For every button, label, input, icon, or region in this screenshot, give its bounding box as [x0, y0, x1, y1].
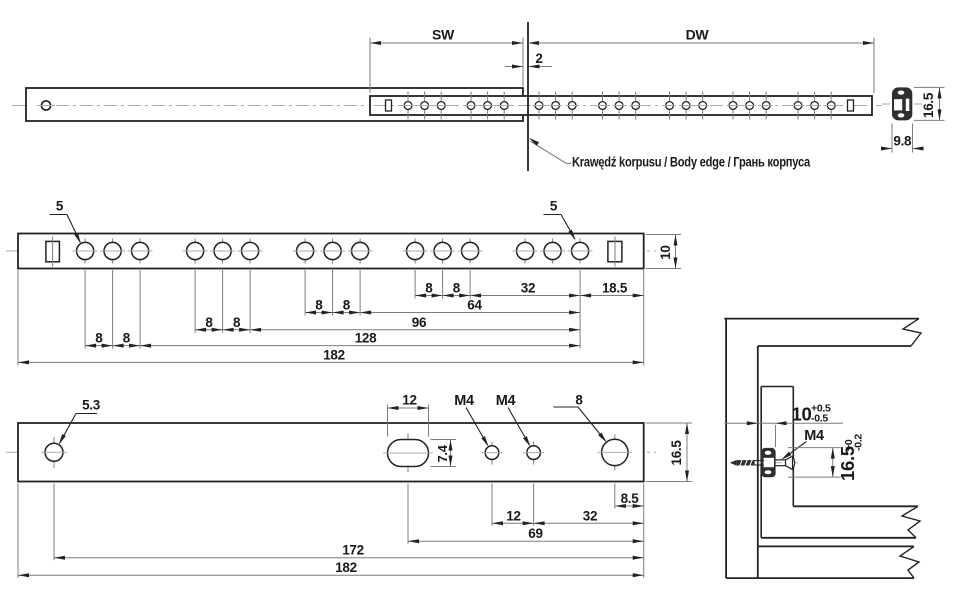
- holes dia 5 on drawer member with tick marks: [84, 239, 86, 264]
- slot at left end of drawer member: [46, 241, 60, 261]
- svg-text:16.5: 16.5: [921, 92, 936, 118]
- svg-text:7.4: 7.4: [435, 444, 450, 462]
- svg-text:128: 128: [355, 331, 377, 346]
- dimension row: 12, 32: [492, 522, 644, 524]
- dimension 16.5 (bar height): [646, 422, 692, 424]
- dimension 9.8 (cross-section width): [891, 124, 893, 153]
- dimension row: 172: [54, 557, 644, 559]
- M4 hole 1 with tick: [491, 442, 493, 465]
- svg-text:8: 8: [123, 331, 131, 346]
- cabinet side panel (vertical): [725, 319, 727, 578]
- svg-text:10: 10: [658, 245, 673, 259]
- dimension row: 8, 8, 96: [195, 329, 580, 331]
- svg-text:Krawędź korpusu / Body edge /: Krawędź korpusu / Body edge / Грань корп…: [572, 154, 810, 170]
- centerline inside outer rail: [56, 105, 365, 107]
- slot at inner rail right: [848, 100, 854, 111]
- centerline inside inner rail: [374, 105, 868, 107]
- slot at right end of drawer member: [608, 241, 622, 261]
- slide profile cross-section on panel: [761, 448, 775, 477]
- dimension row: 8.5: [615, 505, 644, 507]
- svg-text:172: 172: [342, 543, 364, 558]
- svg-text:M4: M4: [454, 393, 474, 409]
- body edge vertical line: [527, 22, 529, 171]
- dimension row: 69: [408, 540, 644, 542]
- svg-text:12: 12: [402, 393, 416, 408]
- dimension 7.4 (slot height): [431, 439, 457, 441]
- svg-text:SW: SW: [432, 27, 455, 43]
- svg-text:32: 32: [583, 508, 597, 523]
- svg-text:182: 182: [335, 560, 357, 575]
- cabinet member bar outline: [18, 423, 644, 482]
- slide cross-section profile: [892, 87, 912, 120]
- outer rail (cabinet member), assembled view: [26, 88, 523, 121]
- hole pattern on inner rail with drill tick marks: [407, 92, 409, 120]
- svg-text:DW: DW: [686, 27, 710, 43]
- svg-text:9.8: 9.8: [893, 134, 912, 149]
- svg-text:8.5: 8.5: [621, 491, 640, 506]
- dimension 16.5 (cross-section height): [914, 86, 945, 88]
- centerline of drawer member bar: [6, 250, 656, 252]
- svg-text:M4: M4: [496, 393, 516, 409]
- M4 hole 2 with tick: [533, 442, 535, 465]
- svg-text:5: 5: [56, 199, 64, 214]
- dimension row: 8, 8, 128: [85, 345, 580, 347]
- svg-text:8: 8: [95, 331, 103, 346]
- dimension row: 8, 8, 32, 18.5: [415, 295, 644, 297]
- svg-text:16.5: 16.5: [669, 440, 684, 466]
- dimension SW: [369, 38, 371, 94]
- svg-text:-0.2: -0.2: [853, 434, 865, 451]
- cabinet top panel with break: [724, 318, 919, 320]
- svg-text:8: 8: [343, 298, 351, 313]
- svg-text:64: 64: [467, 298, 482, 313]
- svg-text:12: 12: [506, 508, 520, 523]
- svg-text:-0.5: -0.5: [811, 413, 828, 425]
- svg-text:8: 8: [453, 281, 461, 296]
- cabinet bottom panel with break: [758, 545, 914, 547]
- euro screw tip and shaft: [730, 460, 736, 465]
- svg-text:8: 8: [205, 315, 213, 330]
- screw centerline: [742, 462, 801, 464]
- screw neck and countersunk head: [776, 459, 786, 461]
- svg-text:8: 8: [315, 298, 323, 313]
- dimension 10 (bar height): [646, 234, 681, 236]
- dimension row: 182 overall: [18, 574, 644, 576]
- centerline of assembled slide: [12, 105, 882, 107]
- svg-text:M4: M4: [804, 428, 824, 444]
- svg-text:8: 8: [233, 315, 241, 330]
- inner rail (drawer member), assembled view: [370, 96, 872, 115]
- svg-text:5.3: 5.3: [82, 398, 101, 413]
- centerline through cross-section: [882, 103, 922, 105]
- svg-text:69: 69: [528, 526, 542, 541]
- dimension row: 8, 8, 64: [305, 312, 580, 314]
- extension lines from holes to dimension rows: [614, 484, 616, 509]
- extension lines from holes to dimension rows: [84, 270, 86, 349]
- dimension 2 (rail end to body edge): [505, 66, 523, 68]
- svg-text:8: 8: [425, 281, 433, 296]
- dimension 12 (slot length): [387, 405, 389, 437]
- hole dia 8 at right with tick: [614, 435, 616, 471]
- dimension 16.5 +0/-0.2 (screw axis position): [788, 447, 841, 449]
- slot at inner rail left: [386, 100, 392, 111]
- svg-text:5: 5: [550, 199, 558, 214]
- drawer member bar outline: [18, 234, 644, 269]
- dimension row: 182 overall: [18, 361, 644, 363]
- svg-text:18.5: 18.5: [602, 281, 628, 296]
- dimension 10 +0.5/-0.5 (hole position from front edge): [725, 422, 844, 424]
- svg-text:10: 10: [792, 404, 812, 425]
- centerline of cabinet member bar: [6, 451, 656, 453]
- drawer bottom panel with break: [793, 505, 918, 507]
- svg-text:8: 8: [575, 393, 583, 408]
- svg-text:182: 182: [323, 347, 345, 362]
- svg-text:2: 2: [535, 51, 542, 66]
- svg-text:96: 96: [412, 315, 427, 330]
- oblong slot 12 x 7.4: [407, 434, 409, 473]
- mounting hole at outer rail left end: [41, 101, 50, 110]
- leader: body edge label: [530, 141, 566, 163]
- svg-text:32: 32: [521, 281, 535, 296]
- dimension DW: [873, 38, 875, 94]
- slide member mounted on panel (side view): [760, 387, 762, 538]
- hole dia 5.3 at left with tick: [53, 437, 55, 468]
